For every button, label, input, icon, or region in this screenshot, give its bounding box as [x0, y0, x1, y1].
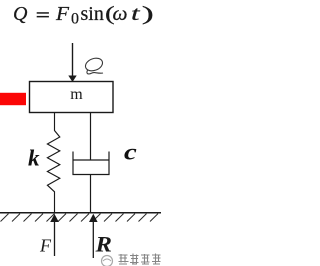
svg-text:Q: Q — [13, 3, 28, 25]
svg-text:sin: sin — [81, 3, 104, 25]
svg-text:F: F — [39, 236, 52, 256]
svg-text:R: R — [94, 233, 111, 257]
svg-text:0: 0 — [71, 11, 79, 28]
svg-text:k: k — [28, 146, 40, 171]
svg-text:t: t — [131, 3, 140, 25]
svg-text:): ) — [142, 3, 154, 25]
svg-text:ω: ω — [113, 3, 128, 25]
svg-text:m: m — [70, 86, 83, 103]
svg-text:F: F — [55, 3, 70, 25]
svg-text:c: c — [124, 139, 137, 165]
